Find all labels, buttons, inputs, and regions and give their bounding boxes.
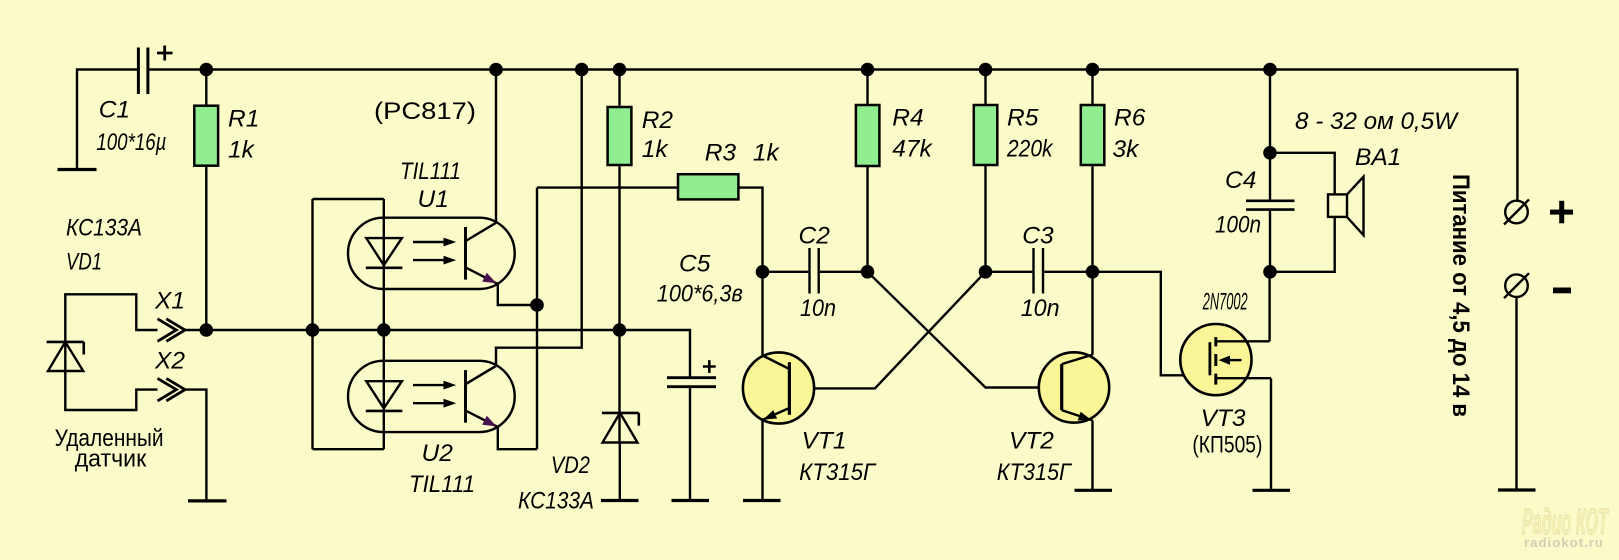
node dot X1 junction: [200, 323, 214, 337]
svg-text:220k: 220k: [1006, 135, 1054, 162]
svg-text:100*6,3в: 100*6,3в: [657, 281, 743, 308]
wire VT1 base cross coupling to R5 node: [789, 272, 985, 389]
svg-text:КТ315Г: КТ315Г: [799, 459, 877, 486]
node dot LED column: [377, 323, 391, 337]
wire emitters junction vertical: [536, 188, 538, 450]
svg-text:КС133А: КС133А: [518, 488, 594, 515]
wire C2 left: [763, 271, 809, 273]
svg-text:TIL111: TIL111: [409, 471, 475, 498]
node dot C3 left: [979, 265, 993, 279]
wire LED bottom bracket: [313, 448, 384, 450]
svg-text:VT1: VT1: [802, 428, 847, 455]
optocoupler U2 body: [348, 361, 515, 432]
wire R4 bottom: [866, 166, 868, 272]
svg-text:VD2: VD2: [551, 452, 590, 479]
svg-text:C2: C2: [799, 223, 831, 250]
node dot R2 top: [613, 63, 627, 77]
U1 LED: [366, 238, 403, 268]
svg-text:8 - 32 ом 0,5W: 8 - 32 ом 0,5W: [1295, 108, 1460, 135]
U2 light arrows: [413, 381, 456, 408]
speaker BA1: [1328, 177, 1364, 236]
wire U1 emitter down: [498, 284, 537, 305]
svg-text:КС133А: КС133А: [66, 215, 142, 242]
wire VT2 collector up: [1091, 272, 1093, 355]
label C1 plus: [157, 46, 173, 61]
node dot R6 top: [1086, 63, 1100, 77]
transistor VT1: [743, 352, 814, 423]
wire R5 bottom: [984, 165, 986, 272]
U2 LED: [366, 381, 403, 411]
wire R3 right to VT1 collector: [738, 188, 762, 356]
node dot speaker top branch: [1263, 146, 1277, 160]
svg-text:1k: 1k: [642, 136, 670, 163]
zener diode VD1: [47, 342, 84, 371]
svg-text:U1: U1: [418, 186, 449, 213]
ground at C1: [58, 168, 97, 171]
node dot U1 emitter junction: [530, 298, 544, 312]
connector X1 chevrons: [158, 319, 186, 342]
wire R1 bottom: [205, 166, 207, 330]
svg-text:U2: U2: [422, 440, 454, 467]
wire C3 left: [986, 271, 1033, 273]
svg-text:R1: R1: [228, 106, 259, 133]
node dot R4 top: [861, 63, 875, 77]
ground at VT3: [1253, 489, 1291, 492]
wire R6 top: [1091, 70, 1093, 106]
svg-text:2N7002: 2N7002: [1202, 289, 1248, 316]
svg-text:Питание от 4,5 до 14 в: Питание от 4,5 до 14 в: [1447, 174, 1474, 417]
svg-text:КТ315Г: КТ315Г: [997, 459, 1072, 486]
capacitor C4: [1246, 201, 1295, 210]
wire U2 collector to bus: [466, 70, 581, 384]
node dot R2 on sensor line: [613, 323, 627, 337]
svg-text:R4: R4: [892, 105, 923, 132]
wire VD2 to ground: [619, 443, 621, 501]
svg-text:1k: 1k: [228, 136, 256, 163]
wire top supply bus: [148, 70, 1517, 201]
ground at VD2: [601, 499, 639, 502]
node dot U1 collector at bus: [489, 63, 503, 77]
wire X2 to ground: [185, 390, 207, 501]
wire C4 bottom: [1269, 210, 1271, 272]
svg-text:10n: 10n: [800, 295, 836, 322]
resistor R5: [974, 105, 998, 165]
svg-text:R2: R2: [642, 107, 674, 134]
terminal plus: [1504, 200, 1529, 225]
node dot C2 right: [861, 265, 875, 279]
node dot C3 right: [1086, 265, 1100, 279]
resistor R1: [194, 106, 218, 166]
wire VT3 source to ground: [1270, 378, 1272, 490]
wire speaker bottom branch: [1270, 217, 1335, 272]
svg-text:датчик: датчик: [75, 446, 147, 473]
node dot C4 top at bus: [1263, 63, 1277, 77]
svg-text:VT2: VT2: [1009, 428, 1054, 455]
label supply minus: [1553, 288, 1571, 294]
svg-text:C1: C1: [99, 96, 130, 123]
wire U1 collector to bus: [495, 70, 497, 223]
svg-text:C3: C3: [1022, 223, 1054, 250]
ground at C5: [672, 499, 710, 502]
capacitor C5: [667, 378, 716, 387]
wire C4 column top: [1269, 70, 1271, 201]
wire R3 left: [537, 186, 678, 188]
terminal minus: [1504, 273, 1529, 298]
svg-text:100*16µ: 100*16µ: [96, 129, 166, 156]
label C5 plus: [703, 360, 716, 373]
U1 light arrows: [413, 238, 456, 265]
wire VT2 emitter to ground: [1091, 420, 1093, 490]
wire VT1 emitter to ground: [761, 420, 763, 501]
resistor R2: [608, 107, 632, 165]
svg-text:BA1: BA1: [1355, 144, 1401, 171]
svg-text:C5: C5: [679, 251, 711, 278]
svg-text:C4: C4: [1225, 167, 1256, 194]
transistor VT3 mosfet: [1180, 324, 1271, 395]
transistor VT2: [1039, 352, 1109, 422]
wire cross coupling C2 to VT2 base: [868, 272, 1063, 388]
wire VD1 lower loop: [65, 371, 157, 410]
wire C5 to ground: [689, 387, 691, 501]
wire R5 top: [984, 70, 986, 106]
wire C3 right: [1044, 271, 1092, 273]
capacitor C3: [1034, 248, 1044, 294]
wire U2 emitter down: [498, 427, 537, 449]
U2 phototransistor: [466, 366, 498, 427]
ground at VT2: [1075, 489, 1113, 492]
svg-text:(КП505): (КП505): [1192, 432, 1262, 459]
svg-text:X2: X2: [154, 348, 185, 375]
node dot C4 bottom: [1263, 265, 1277, 279]
svg-text:radiokot.ru: radiokot.ru: [1524, 535, 1604, 550]
label supply plus: [1550, 201, 1573, 224]
wire top supply bus left segment with drop to C1 ground: [77, 70, 137, 170]
wire minus terminal to ground: [1515, 297, 1517, 490]
node dot R1 top: [200, 63, 214, 77]
svg-text:R6: R6: [1114, 105, 1146, 132]
resistor R6: [1081, 105, 1105, 165]
wire VD1 upper loop: [65, 294, 157, 371]
wire U2 LED column: [383, 330, 385, 449]
svg-text:1k: 1k: [753, 140, 781, 167]
svg-text:VD1: VD1: [66, 249, 102, 276]
svg-text:47k: 47k: [892, 135, 933, 162]
wire LED left vertical: [311, 199, 313, 449]
wire R6 bottom: [1091, 165, 1093, 272]
svg-text:R5: R5: [1007, 105, 1039, 132]
wire U1 LED column: [383, 199, 385, 330]
capacitor C1: [138, 48, 148, 95]
optocoupler U1 body: [348, 218, 515, 289]
capacitor C2: [810, 248, 819, 294]
wire VT3 gate from VT2 node: [1093, 272, 1210, 376]
wire R2 top: [618, 70, 620, 108]
node dot R5 top: [979, 63, 993, 77]
wire R2 bottom: [618, 165, 620, 443]
svg-text:VT3: VT3: [1201, 405, 1246, 432]
svg-text:10n: 10n: [1021, 295, 1060, 322]
wire LED top bracket: [313, 198, 384, 200]
resistor R3: [678, 174, 738, 199]
svg-text:R3: R3: [705, 140, 737, 167]
svg-text:(PC817): (PC817): [374, 98, 476, 125]
ground at X2: [188, 499, 227, 502]
wire speaker top branch: [1270, 153, 1335, 195]
wire C2 right: [820, 271, 868, 273]
svg-text:100n: 100n: [1215, 212, 1261, 239]
connector X2 chevrons: [158, 378, 186, 401]
svg-text:TIL111: TIL111: [400, 158, 461, 185]
ground at minus terminal: [1498, 488, 1536, 491]
wire R1 top: [205, 70, 207, 106]
wire sensor line X1: [185, 330, 691, 378]
svg-text:3k: 3k: [1113, 136, 1141, 163]
zener diode VD2: [602, 413, 639, 443]
wire VT3 drain up: [1268, 272, 1270, 342]
node dot U2 collector at bus: [575, 63, 589, 77]
node dot left LED wire: [306, 323, 320, 337]
ground at VT1: [743, 499, 781, 502]
svg-text:X1: X1: [154, 288, 185, 315]
node dot VT1 collector / C2 left: [756, 265, 770, 279]
U1 phototransistor: [466, 223, 498, 284]
wire R4 top: [866, 70, 868, 106]
resistor R4: [856, 105, 880, 166]
